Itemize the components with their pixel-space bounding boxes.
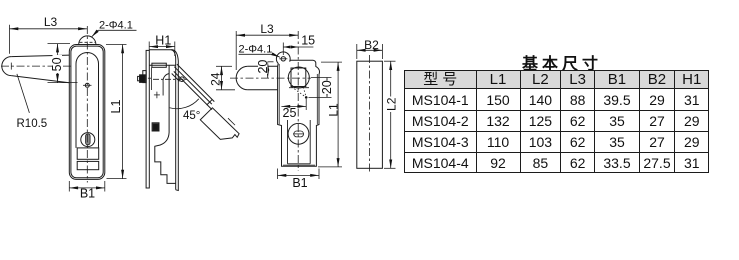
svg-text:L1: L1 xyxy=(327,103,341,117)
view3 handle centerline xyxy=(230,77,311,79)
view2 housing fillet arc xyxy=(163,74,169,96)
view1 top hole bump xyxy=(79,36,96,45)
view3 label 20 left xyxy=(258,60,268,75)
view2 pivot circle xyxy=(180,77,185,82)
svg-text:L2: L2 xyxy=(384,97,398,111)
view1 dimension L1 xyxy=(106,45,127,179)
svg-text:B1: B1 xyxy=(80,187,95,201)
view1 dimension L3 xyxy=(10,25,87,54)
view2 upper clip xyxy=(152,63,166,67)
view3 handle xyxy=(236,66,277,90)
view3 label 2-Phi4.1 with leader xyxy=(239,43,281,57)
view2 rear lines xyxy=(171,50,178,191)
view2 panel plate xyxy=(146,50,149,188)
view2 hole cross xyxy=(154,92,160,99)
table title xyxy=(478,50,642,74)
view3 cylinder circle with square xyxy=(288,67,309,88)
view4 dimension L2 xyxy=(384,61,396,168)
svg-text:20: 20 xyxy=(320,80,334,94)
view3 body outline xyxy=(276,52,319,166)
svg-text:2-Φ4.1: 2-Φ4.1 xyxy=(239,43,273,55)
view3 label 20 right xyxy=(322,81,332,95)
view1 dimension 50 xyxy=(48,44,78,83)
view2 body stepped profile xyxy=(155,65,176,183)
view1 label 50 xyxy=(53,55,63,73)
svg-text:50: 50 xyxy=(50,57,64,71)
view3 inner recess xyxy=(288,120,311,164)
view4 dimension B2 xyxy=(357,44,383,59)
view3 dimension 25 xyxy=(281,99,306,110)
view2 knob axis tick xyxy=(148,77,152,79)
view3 dimension 24 xyxy=(216,66,235,90)
view4 label L2 xyxy=(386,97,396,113)
view3 latch point xyxy=(305,96,308,99)
svg-text:L3: L3 xyxy=(260,22,274,36)
dimension table xyxy=(404,70,709,173)
view1 R10.5 leader xyxy=(17,74,30,113)
view2 inner horizontal xyxy=(149,64,175,66)
view1 middle hole xyxy=(83,83,92,87)
view3 dimension L1 xyxy=(318,62,342,167)
view1 lower box lower xyxy=(77,161,99,169)
view1 lower box upper xyxy=(77,148,99,159)
view1 handle xyxy=(2,55,70,83)
svg-text:15: 15 xyxy=(301,34,315,48)
view2 knob xyxy=(138,71,147,83)
view3 dimension L3 xyxy=(236,31,298,70)
view3 body inner lines xyxy=(279,64,317,165)
view2 pivot centerline xyxy=(153,78,189,80)
view1 plate outer outline xyxy=(69,45,105,180)
view1 key cylinder xyxy=(81,133,95,147)
svg-text:45°: 45° xyxy=(183,110,200,122)
view1 key slot xyxy=(86,134,91,145)
view2 dimension H1 xyxy=(149,42,175,57)
svg-text:25: 25 xyxy=(283,106,297,120)
svg-text:H1: H1 xyxy=(155,33,171,47)
view2 lever arm shaft xyxy=(172,64,215,110)
svg-text:L1: L1 xyxy=(109,100,123,114)
svg-text:B1: B1 xyxy=(292,176,307,190)
svg-text:B2: B2 xyxy=(364,38,379,52)
view3 dimension 20 right xyxy=(309,78,332,98)
view3 tab hole xyxy=(279,57,287,61)
view2 lever cam plate xyxy=(200,108,239,140)
view3 dimension 20 left xyxy=(262,62,274,78)
view3 hidden dotted lines to latch point xyxy=(292,87,307,97)
view3 keyhole xyxy=(288,123,309,144)
view2 body top edge xyxy=(149,50,178,61)
view4 cutout rectangle xyxy=(357,61,383,168)
view2 45 degree arc xyxy=(170,99,199,109)
view2 lower clip xyxy=(152,123,159,131)
view1 label 2-Phi4.1 with leader xyxy=(92,19,137,37)
svg-text:L3: L3 xyxy=(44,15,58,29)
view2 inner line xyxy=(150,68,152,91)
svg-text:20: 20 xyxy=(256,60,270,74)
svg-text:2-Φ4.1: 2-Φ4.1 xyxy=(99,19,133,31)
view1 handle centerline xyxy=(1,65,73,67)
view1 plate inner outline xyxy=(71,46,103,178)
view1 vertical centerline xyxy=(86,26,88,183)
view3 dimension 15 xyxy=(283,43,313,56)
view1 dimension B1 xyxy=(69,181,105,192)
view4 centerline xyxy=(369,55,371,174)
svg-text:R10.5: R10.5 xyxy=(17,118,48,130)
view3 dimension B1 xyxy=(278,169,320,180)
view3 vertical centerline xyxy=(297,31,299,171)
svg-text:24: 24 xyxy=(209,72,223,86)
view1 arched recess slot xyxy=(76,52,99,147)
